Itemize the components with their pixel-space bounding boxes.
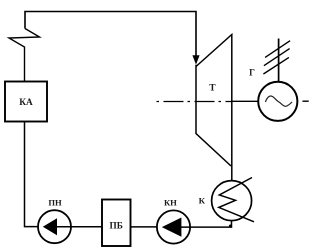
pump PN circle [38, 210, 71, 243]
wire: PN to PB [57, 226, 103, 228]
wire: KN to condenser stub [181, 220, 232, 227]
svg-text:Т: Т [209, 84, 216, 94]
hatch line 3 [263, 57, 289, 74]
svg-text:КН: КН [164, 198, 177, 208]
condenser K circle [212, 181, 252, 221]
svg-text:Г: Г [249, 68, 255, 78]
wire: top steam pipe from boiler to turbine [25, 12, 196, 57]
wire: shaft turbine to generator [232, 100, 258, 102]
centerline (dash-dot shaft axis) [157, 101, 232, 103]
svg-text:К: К [199, 195, 206, 205]
hatch line 1 [265, 41, 290, 58]
svg-text:ПБ: ПБ [110, 221, 123, 231]
generator G circle [258, 82, 297, 121]
wire: PB to KN [131, 226, 158, 228]
pump PN triangle [43, 218, 57, 235]
hatch line 2 [264, 49, 290, 66]
pump KN circle [157, 210, 190, 243]
wire: short shaft right of generator [303, 100, 309, 102]
junction dot [229, 225, 232, 228]
svg-text:ПН: ПН [48, 197, 62, 207]
wire: left downcomer from boiler to bottom pipe [25, 122, 39, 227]
tank PB box [102, 200, 131, 247]
turbine T outline [196, 65, 231, 166]
condenser zigzag coil [219, 178, 254, 222]
wire: generator exciter shaft up [278, 39, 280, 82]
generator sine wave [265, 96, 292, 106]
pump KN triangle [162, 218, 182, 237]
boiler KA box [5, 82, 47, 122]
arrowhead: steam flow into turbine [192, 55, 199, 64]
svg-text:КА: КА [19, 98, 33, 108]
wire: break (zigzag) symbol in left riser [9, 29, 40, 82]
